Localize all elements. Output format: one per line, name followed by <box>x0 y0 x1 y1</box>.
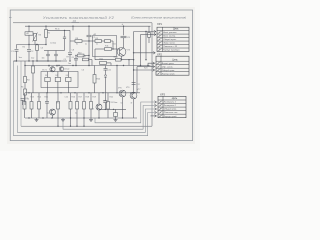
wire stub on left rail <box>14 60 17 62</box>
node <box>72 26 73 27</box>
svg-text:1мк: 1мк <box>19 57 22 59</box>
node <box>24 65 25 66</box>
node <box>112 48 113 49</box>
node <box>123 26 124 27</box>
svg-text:R5: R5 <box>21 87 23 89</box>
wire <box>16 45 18 49</box>
svg-text:С5: С5 <box>64 59 66 61</box>
node <box>102 92 103 93</box>
node <box>145 59 146 60</box>
svg-text:С6 1мк: С6 1мк <box>64 69 70 71</box>
node <box>88 55 89 56</box>
svg-text:R14: R14 <box>38 97 41 99</box>
arrow to XP3 pin 5 <box>154 115 156 118</box>
node <box>28 117 29 118</box>
transistor VT2 <box>59 67 63 71</box>
node <box>74 92 75 93</box>
svg-text:У1: У1 <box>45 70 47 72</box>
wire <box>47 72 49 78</box>
module A2 box <box>93 36 117 57</box>
node <box>28 92 29 93</box>
svg-text:0,5: 0,5 <box>92 109 95 111</box>
node <box>83 126 84 127</box>
svg-text:Усилитель низкочастотный У2: Усилитель низкочастотный У2 <box>43 15 115 20</box>
wire <box>46 93 48 102</box>
wire <box>72 26 74 30</box>
node <box>116 65 117 66</box>
wire <box>36 50 38 61</box>
resistor R5 <box>24 77 27 83</box>
wire <box>46 102 48 105</box>
wire <box>122 97 124 118</box>
wire <box>89 59 93 61</box>
arrow to XP3 pin 1 <box>154 101 156 104</box>
wire <box>24 61 26 77</box>
svg-text:Обр. связь: Обр. связь <box>162 66 173 68</box>
wire <box>46 103 48 108</box>
wire <box>67 82 69 88</box>
wire <box>48 66 50 67</box>
wire (ground rail) <box>25 117 137 119</box>
node <box>123 65 124 66</box>
resistor R21 <box>107 102 110 110</box>
resistor R16 <box>57 102 60 110</box>
wire <box>69 30 71 41</box>
capacitor C4 <box>46 54 50 56</box>
wire <box>24 93 26 102</box>
svg-text:Общий пров.: Общий пров. <box>164 108 178 111</box>
capacitor C14 <box>114 113 118 117</box>
wire <box>69 54 71 61</box>
label U2 <box>72 19 80 23</box>
wire <box>148 37 150 43</box>
svg-text:R23: R23 <box>144 68 147 70</box>
node <box>48 65 49 66</box>
wire <box>91 60 93 66</box>
resistor R21 <box>100 62 107 65</box>
wire to XP1 pin 3 <box>141 34 157 36</box>
wire <box>47 51 49 55</box>
wire <box>56 66 58 67</box>
resistor R13 <box>23 102 26 110</box>
wire to XP2 pin 2 <box>137 66 154 68</box>
node <box>70 117 71 118</box>
wire <box>70 109 72 118</box>
capacitor C7 <box>87 35 92 37</box>
node <box>69 60 70 61</box>
svg-text:R11: R11 <box>113 44 116 46</box>
node <box>98 117 99 118</box>
svg-text:Корпус прибора: Корпус прибора <box>163 50 180 52</box>
transistor VT5 <box>96 104 102 110</box>
node on top rail <box>45 26 46 27</box>
connector table XP2 <box>156 56 189 75</box>
svg-text:С10: С10 <box>65 97 68 99</box>
resistor R19 <box>83 102 86 110</box>
wire <box>133 60 135 93</box>
resistor R4 <box>36 45 39 51</box>
IC block DA3 <box>66 77 71 81</box>
wire stub <box>83 118 85 126</box>
wire (mid rail) <box>25 65 151 67</box>
svg-text:Вход контр.: Вход контр. <box>163 35 176 38</box>
node <box>28 44 29 45</box>
svg-text:10к: 10к <box>42 58 45 60</box>
wire <box>55 56 57 61</box>
ground <box>114 118 118 122</box>
node <box>128 59 129 60</box>
resistor R8 <box>75 40 82 43</box>
node <box>88 65 89 66</box>
wire to XP1 pin 2 <box>134 31 156 33</box>
capacitor C12 (electrolytic) <box>132 83 136 85</box>
wire <box>82 40 95 42</box>
wire <box>64 30 66 37</box>
capacitor C3 <box>21 99 25 101</box>
svg-text:+: + <box>122 22 124 26</box>
resistor R12a <box>83 58 89 61</box>
svg-text:Питание нак.: Питание нак. <box>164 112 178 114</box>
capacitor C2 <box>27 50 31 52</box>
svg-text:ХР1: ХР1 <box>157 22 162 26</box>
capacitor C1 <box>15 50 19 52</box>
svg-text:Общий пров.: Общий пров. <box>163 38 177 41</box>
node <box>76 126 77 127</box>
wire <box>34 41 36 45</box>
svg-text:3т: 3т <box>131 103 133 105</box>
wire <box>46 109 48 119</box>
resistor R5a <box>32 66 35 73</box>
wire <box>148 26 150 32</box>
wire <box>116 66 118 93</box>
wire <box>22 100 24 105</box>
node <box>36 60 37 61</box>
wire <box>48 29 71 31</box>
svg-text:С3: С3 <box>41 48 43 50</box>
connector table XP3 <box>158 96 186 117</box>
resistor R1 <box>45 30 48 38</box>
bus wire 3 <box>17 66 156 133</box>
svg-text:С4 5мк: С4 5мк <box>50 43 56 45</box>
diode VD1 <box>104 75 106 78</box>
wire <box>133 91 135 94</box>
wire <box>112 41 114 49</box>
transistor VT1 <box>50 67 55 72</box>
svg-text:С6: С6 <box>82 70 84 72</box>
svg-text:Общий пров.: Общий пров. <box>162 69 176 72</box>
wire <box>145 32 147 60</box>
wire <box>57 82 59 88</box>
wire stub <box>57 118 59 126</box>
bus wire 2 <box>63 106 156 130</box>
resistor R18 <box>76 102 79 110</box>
wire <box>123 26 125 35</box>
svg-text:Контроль 1: Контроль 1 <box>164 102 176 104</box>
svg-text:3к: 3к <box>76 44 78 46</box>
wire <box>88 41 90 56</box>
node <box>64 30 65 31</box>
wire <box>75 60 77 66</box>
arrow to XP3 pin 2 <box>154 104 156 107</box>
bus wire 1 <box>95 102 156 123</box>
capacitor C9 <box>121 36 127 38</box>
wire <box>31 109 33 118</box>
svg-text:VT7: VT7 <box>137 89 140 91</box>
node <box>113 109 114 110</box>
resistor R11 <box>105 48 112 51</box>
svg-text:R18: R18 <box>86 97 89 99</box>
wire to XP3 pin 5 <box>151 115 157 117</box>
capacitor C4b <box>63 37 66 39</box>
node <box>133 69 134 70</box>
wire <box>90 109 92 118</box>
svg-text:Экран вход.: Экран вход. <box>163 42 175 45</box>
svg-text:R13: R13 <box>31 97 34 99</box>
wire <box>83 109 85 118</box>
svg-text:D2: D2 <box>55 75 57 77</box>
wire <box>76 93 78 102</box>
node <box>32 60 33 61</box>
wire <box>121 56 123 60</box>
arrow to XP2 pin 1 <box>153 62 155 65</box>
svg-text:D1: D1 <box>45 75 47 77</box>
arrow to XP1 pin 3 <box>154 33 156 36</box>
wire <box>105 70 107 75</box>
wire <box>94 49 96 60</box>
ground <box>61 118 65 122</box>
capacitor C8 <box>68 53 72 55</box>
svg-text:1мк: 1мк <box>68 63 71 65</box>
svg-text:R6 2к: R6 2к <box>55 29 60 31</box>
resistor R17 <box>69 102 72 110</box>
wire (rail) <box>95 59 134 61</box>
node <box>105 109 106 110</box>
wire <box>28 51 30 61</box>
svg-text:1к: 1к <box>96 44 98 46</box>
node <box>72 65 73 66</box>
arrow to XP2 pin 2 <box>153 65 155 68</box>
wire (input rail) <box>14 60 68 62</box>
wire <box>57 109 59 118</box>
IC block DA2 <box>55 77 60 81</box>
transistor VT3 <box>117 47 126 56</box>
svg-text:С8: С8 <box>72 50 74 52</box>
wire <box>133 99 135 118</box>
node <box>122 117 123 118</box>
wire <box>83 93 85 102</box>
capacitor C6 <box>74 58 78 60</box>
wire <box>112 48 120 50</box>
arrow to XP1 pin 2 <box>154 30 156 33</box>
capacitor C10 <box>45 102 49 104</box>
svg-text:R14: R14 <box>114 57 117 59</box>
wire <box>94 66 96 75</box>
wire <box>32 61 34 66</box>
svg-text:R16: R16 <box>72 97 75 99</box>
wire <box>99 108 126 110</box>
wire <box>28 35 30 44</box>
arrow to XP2 pin 3 <box>153 69 155 72</box>
resistor R6 <box>24 89 27 95</box>
node <box>121 59 122 60</box>
node <box>60 92 61 93</box>
node <box>140 65 141 66</box>
resistor R20 <box>90 102 93 110</box>
potentiometer R3 <box>33 33 38 42</box>
wire <box>115 117 117 119</box>
wire <box>75 56 77 59</box>
wire <box>47 56 49 61</box>
svg-text:Контроль 2: Контроль 2 <box>164 105 177 107</box>
wire <box>123 38 125 48</box>
node <box>88 26 89 27</box>
wire <box>104 93 106 101</box>
wire <box>88 56 90 66</box>
wire stub <box>70 118 72 126</box>
resistor R15 <box>38 102 41 110</box>
wire <box>95 48 105 50</box>
svg-text:51: 51 <box>121 103 123 105</box>
node <box>133 59 134 60</box>
wire <box>105 78 107 93</box>
wire <box>84 55 89 57</box>
node <box>42 117 43 118</box>
wire <box>47 88 49 93</box>
arrow to XP2 shield <box>153 52 155 55</box>
transistor VT4 <box>50 109 56 115</box>
wire <box>70 93 72 102</box>
svg-text:R2: R2 <box>23 47 25 49</box>
wire <box>110 63 112 66</box>
wire <box>111 40 114 42</box>
resistor R14 (in line) <box>116 58 122 61</box>
wire <box>70 40 75 42</box>
module U1 box <box>41 72 78 88</box>
node <box>28 26 29 27</box>
wire to XP2 pin 3 <box>134 69 155 71</box>
svg-text:1к: 1к <box>47 113 49 115</box>
svg-text:ХР2: ХР2 <box>157 52 162 56</box>
svg-text:D3: D3 <box>66 75 68 77</box>
svg-text:R17: R17 <box>79 97 82 99</box>
node <box>75 65 76 66</box>
wire <box>47 82 49 88</box>
node <box>45 44 46 45</box>
svg-text:С5: С5 <box>27 99 29 101</box>
wire to XP2 pin 1 <box>148 63 154 65</box>
wire <box>45 26 47 29</box>
resistor R2 (sub-box) <box>25 32 33 35</box>
svg-text:Корпус приб.: Корпус приб. <box>162 73 176 75</box>
wire <box>24 109 26 118</box>
wire <box>64 39 66 51</box>
node <box>70 126 71 127</box>
arrow to XP3 pin 3 <box>154 108 156 111</box>
capacitor C11 <box>104 69 108 71</box>
wire <box>31 93 33 102</box>
svg-text:VT6: VT6 <box>126 87 129 89</box>
svg-text:R22: R22 <box>110 97 113 99</box>
svg-text:А1: А1 <box>27 32 29 35</box>
wire <box>24 83 26 90</box>
svg-text:R19: R19 <box>93 97 96 99</box>
bus wire 4 <box>14 61 157 136</box>
wire <box>107 109 109 118</box>
node <box>47 60 48 61</box>
svg-text:R3: R3 <box>39 35 41 37</box>
arrow to XP3 pin 4 <box>154 111 156 114</box>
wire <box>17 44 47 46</box>
svg-text:R10: R10 <box>78 53 81 55</box>
wire <box>140 35 142 66</box>
wire <box>88 26 90 35</box>
wire <box>98 93 100 104</box>
node <box>58 65 59 66</box>
resistor R10 <box>78 54 85 57</box>
transistor VT6 <box>119 90 126 97</box>
wire <box>57 88 59 93</box>
IC block DA1 <box>45 77 50 81</box>
node <box>57 126 58 127</box>
resistor R9 <box>95 40 102 43</box>
wire <box>115 109 117 112</box>
node <box>46 92 47 93</box>
ground <box>35 118 39 122</box>
wire <box>107 62 112 64</box>
node <box>83 117 84 118</box>
node <box>55 60 56 61</box>
connector table XP1 <box>157 27 189 51</box>
wire <box>88 37 90 41</box>
wire <box>55 51 57 55</box>
node <box>88 40 89 41</box>
resistor R20 <box>93 75 96 84</box>
node <box>36 44 37 45</box>
node <box>133 52 134 53</box>
wire <box>105 66 107 69</box>
wire <box>94 83 96 93</box>
wire (power rail) <box>25 25 151 27</box>
svg-text:2к: 2к <box>85 44 87 46</box>
wire <box>76 109 78 118</box>
wire <box>58 50 65 52</box>
wire <box>16 51 18 61</box>
wire <box>44 50 58 52</box>
wire <box>38 93 40 102</box>
wire <box>90 93 92 102</box>
wire <box>52 115 54 118</box>
wire to XP2 shield <box>134 52 155 54</box>
svg-text:5мк: 5мк <box>31 58 34 60</box>
ground <box>89 118 93 122</box>
svg-text:R4: R4 <box>27 80 29 82</box>
wire <box>57 72 59 78</box>
svg-text:R1: R1 <box>48 33 50 35</box>
sheet frame <box>10 10 192 141</box>
amplifier enclosure boundary box <box>13 23 152 126</box>
wire (lower rail) <box>25 92 140 94</box>
svg-text:R15: R15 <box>45 97 48 99</box>
wire stub <box>76 118 78 126</box>
wire <box>32 73 34 93</box>
node <box>51 117 52 118</box>
wire <box>45 38 47 45</box>
wire <box>36 44 38 46</box>
transistor VT7 <box>130 92 137 99</box>
resistor R12 <box>148 33 151 38</box>
wire <box>67 72 69 78</box>
svg-text:VT5: VT5 <box>103 101 106 103</box>
